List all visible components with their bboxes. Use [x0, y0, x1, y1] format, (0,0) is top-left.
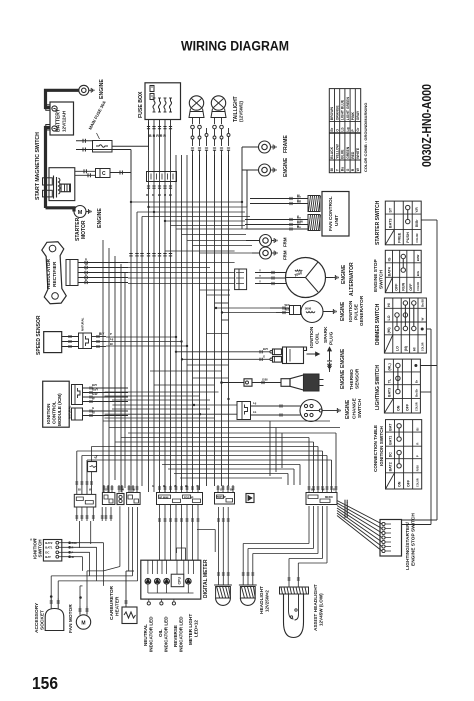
svg-text:CPU: CPU: [178, 577, 182, 585]
wire right margin vertical: [436, 220, 438, 520]
headlight bulb 2: [240, 587, 255, 599]
svg-text:NATURAL: NATURAL: [81, 317, 85, 331]
junction at 181.5,341.5: [181, 341, 183, 343]
meter LEDs: [145, 578, 151, 584]
wire horizontal run y400: [112, 399, 210, 401]
svg-text:Y: Y: [85, 268, 87, 272]
svg-text:P: P: [110, 332, 112, 336]
engine stop switch table: [385, 250, 421, 292]
wire vertical trunk x137: [136, 212, 138, 492]
starter motor M1: [74, 206, 86, 218]
svg-text:IGNITION SWITCH: IGNITION SWITCH: [379, 426, 384, 466]
connector block G small: [246, 494, 254, 503]
svg-text:DC: DC: [45, 551, 49, 555]
svg-text:Bl: Bl: [330, 168, 334, 171]
svg-text:Bl: Bl: [297, 194, 300, 198]
junction at 216,308: [215, 307, 217, 309]
svg-text:Bl: Bl: [416, 428, 420, 431]
svg-text:LED×12: LED×12: [194, 620, 199, 637]
wire horizontal run y262.5: [128, 262, 235, 264]
wire vertical trunk x192.5: [192, 155, 194, 490]
wire horizontal run y240.5: [187, 240, 246, 242]
svg-text:STARTER SWITCH: STARTER SWITCH: [375, 200, 381, 245]
svg-text:G: G: [297, 224, 299, 228]
svg-text:Y: Y: [196, 484, 198, 488]
wire horizontal run y216.5: [142, 216, 250, 218]
svg-text:W/Y: W/Y: [285, 303, 290, 307]
wire bend into block F x327: [326, 456, 328, 486]
svg-text:SWITCH: SWITCH: [379, 270, 385, 289]
connector block 0 bottom left: [74, 494, 96, 507]
wire block D to meter pin 8: [197, 505, 199, 561]
svg-text:Gr: Gr: [356, 127, 360, 132]
svg-text:SWITCH: SWITCH: [38, 539, 43, 558]
svg-text:Bl/Y: Bl/Y: [263, 347, 268, 351]
spark plug arrow: [329, 351, 331, 361]
svg-text:B: B: [85, 278, 87, 282]
wire magnetic switch second output: [76, 149, 131, 151]
wire bend lower mesh x288: [287, 474, 289, 486]
svg-text:PINK: PINK: [351, 112, 355, 121]
connector block F: [306, 493, 337, 505]
junction at 131,202: [130, 201, 132, 203]
wire block D to meter pin 6: [186, 505, 188, 561]
junction at 194,405: [193, 404, 195, 406]
svg-text:OFF: OFF: [407, 479, 411, 487]
wire bend into block F x313.5: [313, 442, 315, 485]
svg-text:BAT2: BAT2: [45, 541, 53, 545]
wire horizontal run y464.5: [162, 464, 300, 466]
svg-text:BAT1: BAT1: [45, 546, 53, 550]
junction at 182,359.3: [181, 359, 183, 361]
svg-text:PUSH: PUSH: [406, 232, 410, 243]
svg-text:Bl: Bl: [110, 342, 113, 346]
svg-text:Bl/W: Bl/W: [416, 254, 420, 261]
svg-text:IG: IG: [387, 257, 391, 261]
svg-text:M: M: [78, 210, 83, 216]
wire horizontal run y207: [149, 206, 248, 208]
connector C1 right of magnetic switch: [96, 169, 111, 178]
junction at 200,414.2: [199, 413, 201, 415]
svg-text:IGNITION: IGNITION: [46, 403, 51, 424]
svg-text:DIMMER SWITCH: DIMMER SWITCH: [375, 303, 381, 345]
svg-text:Lg: Lg: [253, 401, 257, 405]
wire bend into block F x331.5: [331, 460, 333, 485]
ignition pulse generator: [301, 301, 323, 323]
svg-text:156: 156: [32, 673, 58, 693]
wires lighting switch to right margin: [420, 365, 437, 367]
wire horizontal run y378: [193, 377, 229, 379]
wire horizontal run y320: [222, 319, 229, 321]
svg-text:M: M: [81, 621, 85, 627]
ground engine at spark plug: [329, 362, 331, 364]
svg-text:P: P: [416, 455, 420, 457]
wire horizontal run y221: [165, 220, 245, 222]
svg-text:HEATER: HEATER: [115, 596, 121, 616]
svg-text:COLOR COMB : GROUND/MARKING: COLOR COMB : GROUND/MARKING: [363, 103, 368, 172]
svg-text:4P MINI: 4P MINI: [159, 495, 169, 499]
wire vertical trunk x221.5: [221, 155, 223, 486]
fan control connectors: [308, 196, 320, 212]
wire vertical trunk x121: [120, 264, 122, 492]
svg-text:LIGHTING SWITCH: LIGHTING SWITCH: [375, 365, 381, 410]
svg-text:POS 4P: POS 4P: [184, 495, 194, 499]
wire vertical trunk x148.5: [148, 122, 150, 492]
svg-text:Br: Br: [230, 488, 233, 492]
wire block D to meter pin 7: [192, 505, 194, 561]
wire short run above headlight 1: [197, 529, 215, 531]
wire horizontal run y359.3: [182, 358, 251, 360]
svg-text:R: R: [85, 258, 87, 262]
wire horizontal run y442: [115, 441, 314, 443]
ring terminal engine ground: [242, 169, 259, 171]
wire horizontal run y303: [215, 302, 229, 304]
svg-text:WHITE: WHITE: [356, 147, 360, 159]
wire vertical trunk x270: [269, 421, 271, 476]
speed sensor: [44, 332, 62, 353]
taillight bulb 2: [211, 96, 225, 110]
wire horizontal run y365: [187, 364, 229, 366]
svg-text:FRAME: FRAME: [283, 135, 289, 153]
wire magnetic switch to main fuse: [76, 140, 93, 142]
wire horizontal run y225.5: [171, 225, 246, 227]
wire vertical trunk x131: [130, 173, 132, 493]
svg-text:R: R: [163, 484, 165, 488]
wires fan to switch box: [337, 501, 382, 525]
svg-text:LIGHTING/STARTER/: LIGHTING/STARTER/: [405, 521, 411, 570]
small fuse bottom left: [88, 462, 97, 472]
svg-text:OFF: OFF: [409, 283, 413, 291]
svg-text:Bl: Bl: [92, 411, 95, 415]
wire horizontal run y278: [128, 277, 235, 279]
wire vertical trunk x206.5: [206, 155, 208, 486]
connector block D long: [157, 493, 203, 505]
wire horizontal run y478: [180, 477, 282, 479]
wire horizontal run y451: [77, 450, 323, 452]
wires headlight 1: [218, 507, 220, 585]
svg-text:CHANGE: CHANGE: [352, 397, 358, 419]
wires below fuse box: [148, 120, 150, 133]
wire vertical trunk x165: [164, 150, 166, 492]
wires headlight 2 nested bends from block F: [308, 506, 310, 544]
svg-text:B/Y: B/Y: [99, 332, 105, 336]
svg-text:FRM: FRM: [283, 237, 288, 247]
wire horizontal run y455.5: [82, 455, 327, 457]
wire horizontal run y446.5: [92, 446, 319, 448]
svg-text:TOP 6P: TOP 6P: [217, 495, 226, 499]
svg-text:12V45W (LOW): 12V45W (LOW): [319, 593, 324, 626]
svg-text:0030Z-HN0-A000: 0030Z-HN0-A000: [420, 84, 434, 167]
wires into block row 0: [75, 481, 78, 483]
svg-text:INDICATOR LED: INDICATOR LED: [149, 616, 154, 652]
svg-text:Bu/Bl: Bu/Bl: [421, 299, 425, 307]
ground engine at thermo sensor: [329, 368, 331, 372]
svg-text:Lb: Lb: [341, 127, 345, 131]
svg-text:MODULE (ICM): MODULE (ICM): [57, 393, 62, 426]
battery B1: [50, 102, 74, 135]
wire connector C1 to mesh: [110, 172, 132, 174]
svg-text:OFF: OFF: [395, 283, 399, 291]
wire bend lower mesh x294: [293, 469, 295, 485]
svg-text:LO: LO: [387, 315, 391, 320]
regulator connector: [66, 260, 78, 286]
svg-text:BLUE: BLUE: [341, 149, 345, 159]
svg-text:Y: Y: [259, 274, 261, 278]
svg-text:THERMO: THERMO: [349, 369, 355, 390]
svg-text:G: G: [92, 406, 94, 410]
wire vertical trunk x142: [141, 217, 143, 487]
fuse box pins: [150, 86, 154, 92]
ignition control module ICM: [43, 381, 69, 427]
svg-text:ENGINE: ENGINE: [283, 157, 289, 177]
svg-text:COLOR: COLOR: [417, 282, 420, 291]
wire vertical trunk x242: [241, 147, 243, 229]
svg-text:GREEN: GREEN: [346, 146, 350, 159]
svg-text:ST: ST: [388, 207, 392, 213]
svg-text:IGNITION: IGNITION: [309, 326, 315, 348]
svg-text:BROWN: BROWN: [330, 106, 334, 120]
wire vertical trunk x228.5: [228, 155, 230, 486]
svg-text:ENGINE: ENGINE: [99, 79, 105, 99]
svg-text:Bl: Bl: [185, 484, 188, 488]
meter bottom line: [148, 592, 194, 594]
wires change switch: [251, 405, 302, 407]
svg-text:LIGHT BLUE: LIGHT BLUE: [341, 99, 345, 120]
wire block D to meter pin 5: [181, 505, 183, 561]
wire horizontal run y341.5: [106, 341, 182, 343]
wire bend into block F x322.5: [322, 451, 324, 485]
wire horizontal run y396: [105, 395, 200, 397]
wires ignition switch loop bends: [103, 543, 105, 586]
svg-text:Y/R: Y/R: [415, 207, 419, 213]
wire block D to meter pin 2: [164, 505, 166, 561]
svg-text:FREE: FREE: [397, 232, 401, 243]
change switch: [300, 400, 322, 422]
svg-text:C: C: [102, 171, 106, 177]
wire bend into block F x309: [308, 438, 310, 486]
svg-text:B/G: B/G: [416, 270, 420, 276]
ring terminal frame ground 2: [246, 240, 260, 242]
wires loop horizontals to socket and fan: [51, 575, 89, 577]
svg-text:(HL): (HL): [387, 363, 391, 371]
junction bullets above socket: [50, 596, 52, 598]
svg-text:SPEED SENSOR: SPEED SENSOR: [36, 315, 42, 355]
digital meter box: [141, 560, 201, 599]
svg-text:DC: DC: [389, 452, 393, 458]
ground engine at starter motor: [86, 211, 88, 213]
svg-text:RED: RED: [351, 151, 355, 159]
color table: [329, 89, 360, 173]
meter CPU: [171, 574, 184, 587]
svg-text:12V25W×2: 12V25W×2: [265, 590, 270, 612]
svg-text:ON: ON: [398, 481, 402, 487]
svg-text:ENGINE: ENGINE: [97, 208, 103, 228]
svg-text:G/Bl: G/Bl: [262, 378, 268, 382]
svg-text:BAT2: BAT2: [389, 462, 393, 471]
svg-text:Lg: Lg: [110, 337, 114, 341]
taillight pin wires: [192, 118, 194, 125]
carburetor heater: [122, 607, 137, 624]
svg-text:BAT: BAT: [45, 555, 51, 559]
wire horizontal run y333.5: [207, 333, 229, 335]
wire horizontal run y245.5: [193, 245, 253, 247]
svg-text:ENGINE: ENGINE: [340, 301, 346, 321]
connector block B: [117, 494, 124, 505]
wire starter table to right margin: [421, 219, 437, 221]
wire horizontal run y251: [165, 250, 235, 252]
svg-text:G: G: [105, 488, 107, 492]
wire horizontal run y337: [106, 336, 176, 338]
wires magnetic switch to connector C2: [75, 170, 96, 172]
wire vertical trunk x276: [275, 428, 277, 473]
connector block A: [102, 493, 115, 505]
wire horizontal run y253: [200, 252, 253, 254]
wire stubs below connector block: [147, 185, 150, 187]
wire pulse generator to ground: [323, 311, 331, 313]
svg-text:Br: Br: [330, 127, 334, 131]
svg-text:RUN: RUN: [402, 283, 406, 291]
regulator rectifier: [41, 241, 66, 304]
ICM connector bottom: [72, 408, 83, 420]
fuse symbols in fuse box: [153, 98, 155, 112]
alternator lead wires: [255, 272, 286, 274]
svg-text:G: G: [346, 168, 350, 171]
svg-text:Bu/Br: Bu/Br: [414, 388, 418, 397]
wire horizontal run y283.5: [128, 283, 235, 285]
svg-text:B: B: [133, 488, 135, 492]
wire horizontal run y469: [168, 468, 294, 470]
svg-text:LO: LO: [396, 346, 400, 351]
lighting switch table: [384, 359, 420, 413]
svg-text:Y: Y: [259, 279, 261, 283]
svg-text:SPARK: SPARK: [323, 326, 329, 343]
wire horizontal run y421: [103, 420, 330, 422]
svg-text:Bu/Y: Bu/Y: [92, 388, 98, 392]
svg-text:ENGINE STOP: ENGINE STOP: [373, 259, 379, 292]
wire vertical trunk x187: [186, 155, 188, 490]
svg-text:REGULATOR: REGULATOR: [46, 259, 52, 289]
connector block under fuse box: [147, 172, 177, 182]
wire block D to meter pin 4: [175, 505, 177, 561]
wire horizontal run y229: [176, 228, 245, 230]
svg-text:CARBURETOR: CARBURETOR: [109, 585, 115, 620]
svg-text:G: G: [263, 354, 265, 358]
wire horizontal run y290: [200, 289, 231, 291]
wire horizontal run y351.8: [176, 351, 251, 353]
thermo sensor inline connector: [222, 382, 245, 384]
svg-text:SWITCH: SWITCH: [357, 399, 363, 418]
svg-text:COLOR: COLOR: [422, 342, 425, 351]
junction at 242,202: [241, 201, 243, 203]
svg-text:ALTERNATOR: ALTERNATOR: [349, 262, 355, 296]
svg-text:G: G: [220, 488, 222, 492]
wire 5A fuse leads: [91, 447, 93, 462]
wire alternator to ground: [326, 277, 334, 279]
wire horizontal run y433: [128, 432, 336, 434]
headlight bulb 1: [216, 587, 231, 599]
regulator wires: [78, 262, 128, 264]
svg-text:INDICATOR LED: INDICATOR LED: [179, 616, 184, 652]
wires assist headlight nested bends: [322, 506, 324, 559]
svg-text:START MAGNETIC SWITCH: START MAGNETIC SWITCH: [35, 132, 41, 200]
wire horizontal run y312.5: [222, 312, 276, 314]
svg-text:CONTROL: CONTROL: [52, 401, 57, 424]
svg-text:Lg: Lg: [346, 127, 350, 131]
svg-text:ON: ON: [396, 405, 400, 411]
wires into fan control unit: [250, 198, 308, 200]
wire horizontal run y437.5: [121, 437, 309, 439]
wire pulse generator leads: [270, 307, 290, 309]
junction at 222,312.5: [221, 312, 223, 314]
meter U-bend wire above: [177, 548, 186, 560]
connector block C: [127, 493, 141, 505]
wire vertical trunk x87: [86, 460, 88, 494]
svg-text:MERO: MERO: [325, 495, 333, 499]
svg-text:W/B: W/B: [285, 308, 290, 312]
svg-text:DIGITAL METER: DIGITAL METER: [203, 559, 209, 598]
wire thick battery positive to engine ground: [46, 90, 79, 107]
svg-text:COLOR: COLOR: [417, 478, 420, 487]
ring terminal frame ground: [242, 146, 259, 148]
svg-text:Bl: Bl: [78, 488, 81, 492]
svg-text:(N): (N): [404, 345, 408, 351]
wire vertical trunk x199.5: [199, 155, 201, 490]
wire vertical trunk x81.9: [81, 456, 83, 495]
svg-text:Bl/W: Bl/W: [297, 220, 303, 224]
wire bend lower mesh x300: [299, 465, 301, 486]
wire main fuse to mesh: [112, 145, 149, 147]
svg-text:RECTIFIER: RECTIFIER: [52, 261, 58, 287]
wires loop horizontal extensions: [104, 567, 120, 571]
fan motor: [76, 615, 90, 629]
svg-text:OIL: OIL: [158, 629, 163, 637]
wire horizontal run y392: [105, 391, 219, 393]
wire horizontal run y308: [216, 307, 270, 309]
dimmer switch table: [384, 298, 426, 353]
svg-text:FUSE BOX: FUSE BOX: [138, 91, 144, 118]
junction at 176,351.8: [175, 351, 177, 353]
lighting starter engine stop switch box: [380, 520, 402, 557]
svg-text:(12V5W/2): (12V5W/2): [239, 100, 244, 122]
svg-text:INDICATOR LED: INDICATOR LED: [164, 616, 169, 652]
svg-text:ACCESSORY: ACCESSORY: [34, 602, 40, 633]
wire change switch ground: [322, 410, 335, 412]
wire vertical trunk x159.5: [159, 150, 161, 492]
ring terminal battery ground: [79, 85, 89, 95]
svg-text:R: R: [333, 488, 335, 492]
speed sensor wires: [62, 336, 79, 338]
svg-text:B R R R R: B R R R R: [149, 134, 166, 138]
wire horizontal run y418: [105, 417, 215, 419]
svg-text:Bu: Bu: [297, 199, 301, 203]
wire horizontal run y460: [87, 459, 332, 461]
svg-text:ENGINE STOP SWITCH: ENGINE STOP SWITCH: [411, 513, 417, 566]
taillight bulb 1: [189, 96, 203, 110]
ignition switch connection table: [386, 420, 422, 489]
wire horizontal run y295: [207, 294, 231, 296]
meter bottom terminals: [148, 599, 150, 602]
alternator G1: [286, 258, 326, 298]
svg-text:GENERATOR: GENERATOR: [359, 295, 365, 326]
svg-text:Bu: Bu: [341, 167, 345, 172]
wire vertical trunk x115: [114, 256, 116, 480]
svg-text:PULSE: PULSE: [354, 303, 360, 320]
wire vertical trunk x125: [124, 272, 126, 488]
svg-text:MOTOR: MOTOR: [81, 220, 87, 239]
wires ignition switch out with terminals: [62, 542, 69, 544]
svg-text:BAT: BAT: [389, 423, 393, 431]
junction at 176,337: [175, 336, 177, 338]
